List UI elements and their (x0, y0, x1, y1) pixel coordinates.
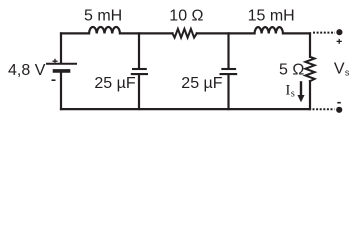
svg-text:25 µF: 25 µF (94, 75, 135, 92)
svg-text:I: I (285, 83, 290, 99)
svg-text:15 mH: 15 mH (248, 7, 295, 24)
svg-text:10 Ω: 10 Ω (169, 7, 203, 24)
svg-text:5 Ω: 5 Ω (279, 62, 304, 79)
svg-text:5 mH: 5 mH (84, 7, 122, 24)
svg-text:V: V (334, 61, 345, 78)
svg-text:s: s (291, 89, 295, 100)
svg-text:25 µF: 25 µF (181, 75, 222, 92)
svg-text:s: s (345, 67, 350, 77)
svg-text:4,8 V: 4,8 V (8, 62, 46, 79)
